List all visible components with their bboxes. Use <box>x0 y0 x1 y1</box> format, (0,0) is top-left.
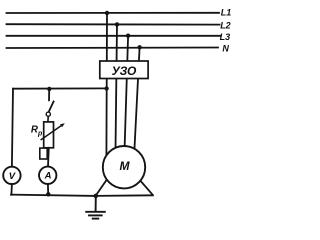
svg-text:L2: L2 <box>220 20 231 30</box>
svg-text:V: V <box>9 171 16 182</box>
ground symbol <box>86 196 105 219</box>
svg-text:M: M <box>120 159 131 173</box>
wire N bus line <box>7 47 219 50</box>
svg-text:N: N <box>222 44 229 54</box>
node junction ammeter on bottom rail <box>46 192 50 196</box>
ground node junction <box>94 194 99 199</box>
node junction at switch tap <box>47 87 51 91</box>
node junction on L2 <box>115 22 119 26</box>
node junction on N <box>137 45 141 49</box>
switch S blade and contact <box>46 90 53 122</box>
wire phase drop 2 from L2 to RCD and motor <box>115 24 117 158</box>
ammeter A <box>39 167 56 184</box>
svg-text:A: A <box>44 171 52 182</box>
wire voltmeter to bottom rail <box>10 184 13 195</box>
node junction on L1 <box>105 11 109 15</box>
wire neutral drop from N to RCD and motor <box>134 47 140 158</box>
voltmeter V <box>3 167 20 184</box>
node junction on L3 <box>126 34 130 38</box>
svg-text:L3: L3 <box>220 32 231 42</box>
wire L3 bus line <box>7 35 221 37</box>
wire L1 bus line <box>7 12 220 14</box>
resistor Rp rheostat body <box>44 122 54 148</box>
svg-text:L1: L1 <box>221 8 232 18</box>
motor mount left leg <box>96 175 110 196</box>
wire left vertical down to voltmeter <box>12 89 13 167</box>
svg-text:Rp: Rp <box>31 125 43 138</box>
motor mount right leg <box>138 178 152 195</box>
motor M body <box>103 146 145 188</box>
RCD box УЗО <box>100 61 148 79</box>
svg-text:УЗО: УЗО <box>112 64 137 78</box>
wire ammeter to bottom rail <box>47 184 49 194</box>
wire L2 bus line <box>7 23 220 25</box>
wire phase drop 3 from L3 to RCD and motor <box>124 36 128 158</box>
resistor Rp adjustment arrow <box>41 123 65 139</box>
resistor Rp lower section box <box>40 148 47 159</box>
wire phase drop 1 from L1 to RCD and motor <box>105 13 108 158</box>
node junction of branch wire with phase drop 1 <box>104 86 108 90</box>
motor mount base <box>96 194 153 197</box>
wire left branch horizontal from phase drop 1 <box>13 87 107 89</box>
wire from resistor Rp to ammeter <box>47 148 50 167</box>
wire bottom rail <box>11 195 96 196</box>
